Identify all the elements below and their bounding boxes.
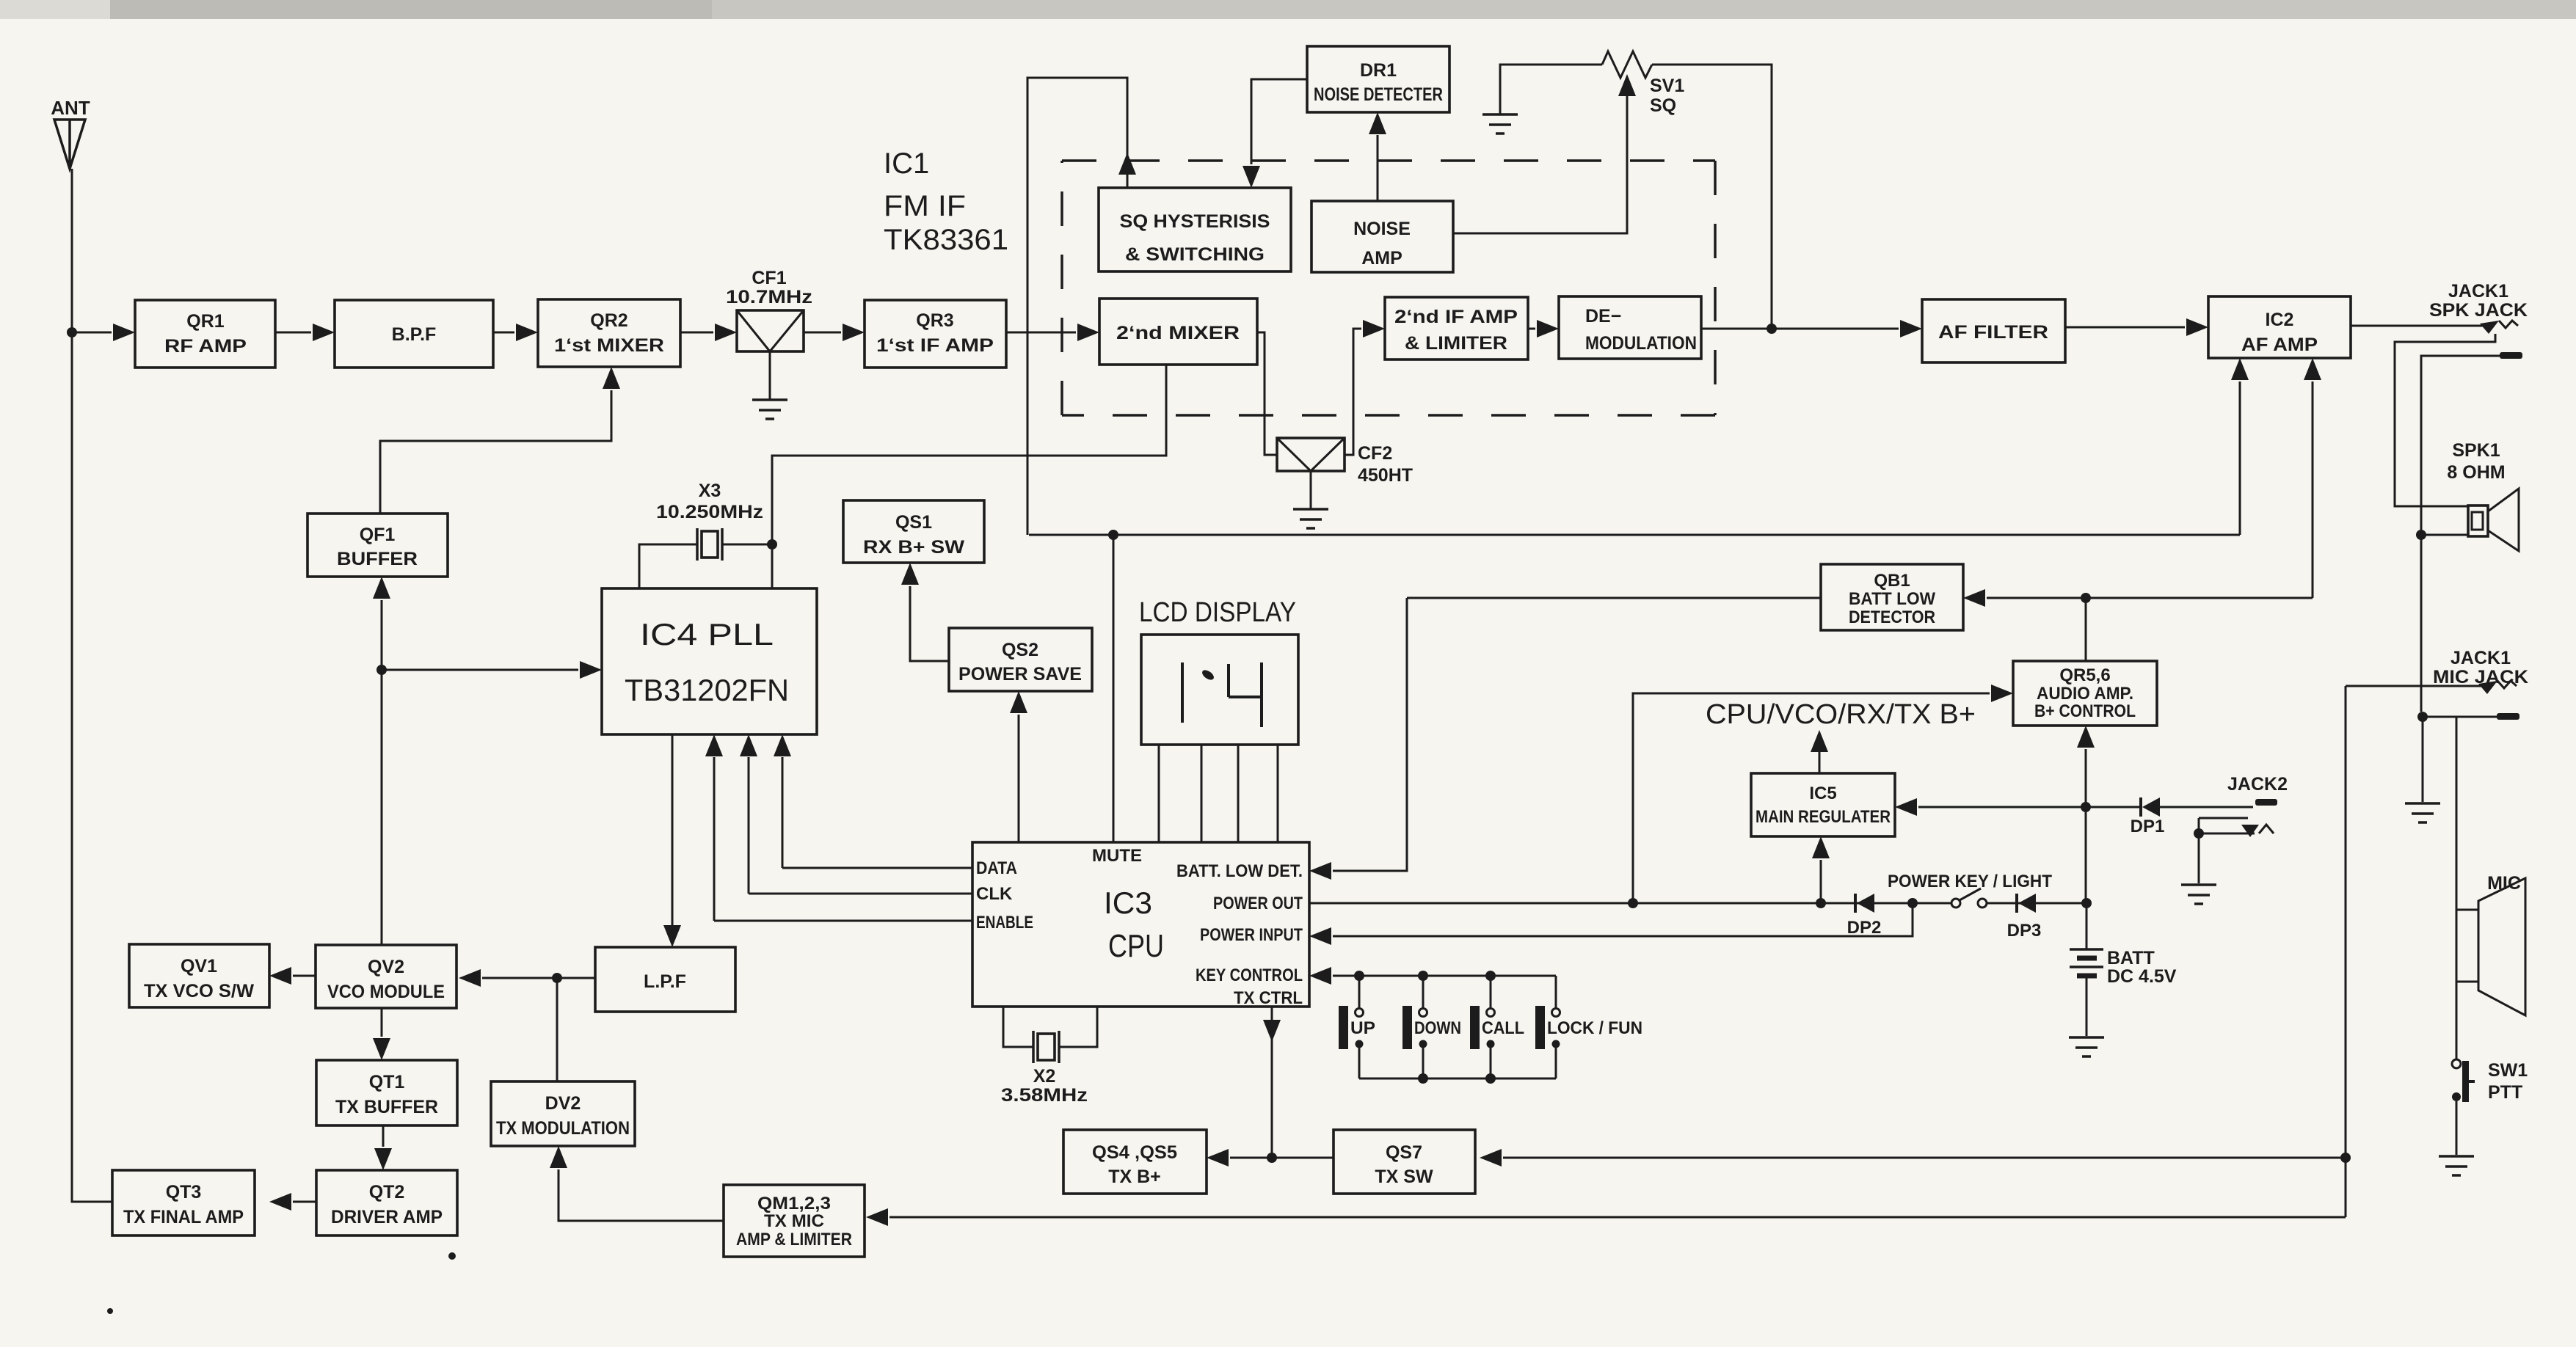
svg-text:QS4 ,QS5: QS4 ,QS5: [1092, 1142, 1177, 1163]
svg-text:POWER OUT: POWER OUT: [1213, 894, 1303, 913]
wire QB1 to IC3 BATT LOW DET: [1333, 598, 1407, 871]
diode DP1: [2139, 797, 2142, 817]
svg-text:DE−: DE−: [1585, 306, 1621, 326]
svg-text:QT1: QT1: [369, 1072, 405, 1092]
ground under CF2: [1293, 509, 1328, 528]
node demod output junction: [1767, 324, 1777, 334]
speaker SPK1 8 OHM: [2468, 505, 2488, 536]
svg-text:AMP & LIMITER: AMP & LIMITER: [736, 1230, 852, 1249]
svg-text:SQ: SQ: [1650, 95, 1676, 116]
wire B+ into QR5,6 top: [2085, 598, 2087, 661]
wire IC3 to QS2: [1018, 715, 1020, 842]
node antenna RX tap junction: [67, 327, 77, 337]
diode DP2: [1854, 894, 1857, 913]
node IC5 feed tap: [1816, 898, 1826, 908]
IC1 FM IF TK83361 dashed boundary: [1062, 161, 1715, 415]
wire KEY CONTROL bus: [1333, 975, 1556, 977]
node battery junction: [2081, 898, 2092, 908]
svg-text:QR2: QR2: [590, 310, 627, 331]
connector JACK1 MIC sleeve bar: [2497, 713, 2519, 720]
LCD digits 14: [1182, 662, 1262, 727]
wire IC4 to LPF: [672, 734, 674, 926]
svg-text:IC3: IC3: [1104, 886, 1152, 920]
filter CF2 450HT: [1277, 438, 1345, 471]
svg-text:SPK1: SPK1: [2452, 440, 2500, 461]
svg-text:MIC: MIC: [2487, 873, 2521, 894]
node mute junction: [1108, 530, 1118, 540]
block QV1 TX VCO S/W: [129, 944, 269, 1007]
filter CF1 10.7MHz: [737, 310, 804, 351]
svg-text:450HT: 450HT: [1358, 465, 1413, 486]
wire QT1 to QT2: [382, 1125, 385, 1147]
wire X3 right to IC4: [722, 544, 772, 588]
block AF FILTER: [1922, 299, 2065, 362]
svg-text:MAIN REGULATER: MAIN REGULATER: [1755, 807, 1891, 827]
arrowhead into IC2 bottom pin1: [2231, 358, 2249, 380]
arrowhead TX CTRL direction: [1263, 1020, 1281, 1042]
wire AF FILTER to IC2: [2065, 326, 2185, 329]
node IC5 output junction: [2081, 802, 2091, 812]
svg-text:2‘nd MIXER: 2‘nd MIXER: [1116, 323, 1240, 343]
wire MIC audio to QM amp: [889, 1216, 2346, 1219]
node POWER INPUT tap: [1907, 898, 1918, 908]
svg-text:2‘nd IF AMP: 2‘nd IF AMP: [1394, 307, 1518, 327]
wire MIC sleeve: [2423, 716, 2497, 718]
wire DR1 to SQ HYST: [1251, 79, 1307, 164]
wire NOISE AMP to SV1 wiper: [1453, 79, 1627, 233]
wire 2nd MIXER to CF2: [1257, 332, 1277, 455]
block LCD DISPLAY: [1141, 635, 1298, 745]
wire LCD pin4: [1277, 745, 1279, 842]
wire MIC to SW1: [2456, 982, 2458, 1059]
node VCO signal tap: [376, 665, 387, 675]
wire to IC3 POWER INPUT: [1333, 903, 1913, 936]
arrowhead into QR2 bottom: [603, 367, 620, 389]
svg-text:LCD DISPLAY: LCD DISPLAY: [1139, 597, 1296, 628]
svg-text:DR1: DR1: [1360, 60, 1397, 81]
block IC5 MAIN REGULATER: [1751, 773, 1895, 836]
wire junction to battery node: [2085, 807, 2087, 903]
block QS1 RX B+ SW: [843, 500, 984, 563]
svg-text:JACK1: JACK1: [2448, 281, 2508, 302]
arrowhead SQ HYST up out of IC1: [1118, 153, 1136, 175]
svg-text:8 OHM: 8 OHM: [2447, 462, 2505, 483]
wire IC3 TX CTRL down: [1271, 1007, 1273, 1158]
svg-text:POWER KEY / LIGHT: POWER KEY / LIGHT: [1888, 872, 2052, 891]
node MIC sleeve junction: [2417, 712, 2428, 722]
svg-text:X3: X3: [699, 481, 721, 501]
svg-text:IC5: IC5: [1809, 784, 1836, 803]
svg-text:1‘st IF AMP: 1‘st IF AMP: [876, 335, 994, 356]
svg-text:VCO MODULE: VCO MODULE: [327, 982, 445, 1002]
wire JACK2 to ground: [2198, 833, 2200, 883]
svg-text:QV1: QV1: [181, 956, 217, 977]
crystal X3 10.250MHz: [697, 528, 722, 561]
svg-text:NOISE DETECTER: NOISE DETECTER: [1314, 84, 1443, 105]
svg-text:CALL: CALL: [1482, 1018, 1524, 1038]
resistor SV1 SQ: [1602, 51, 1652, 78]
node X3-LO junction: [767, 539, 777, 550]
svg-text:& LIMITER: & LIMITER: [1405, 333, 1507, 354]
svg-text:TX SW: TX SW: [1375, 1167, 1433, 1187]
svg-text:FM IF: FM IF: [884, 190, 966, 222]
svg-text:TK83361: TK83361: [884, 224, 1008, 256]
connector JACK2 bar: [2255, 799, 2277, 806]
node LPF output junction: [552, 973, 562, 983]
svg-text:DETECTOR: DETECTOR: [1849, 607, 1935, 627]
svg-text:CF2: CF2: [1358, 443, 1392, 464]
svg-text:IC1: IC1: [884, 147, 929, 180]
svg-text:TX BUFFER: TX BUFFER: [335, 1097, 438, 1117]
block QM1,2,3 TX MIC AMP and LIMITER: [724, 1185, 865, 1257]
wire battery line to JACK2: [2086, 806, 2141, 808]
wire battery to ground: [2086, 978, 2088, 1036]
diode DP3: [2015, 894, 2018, 913]
svg-text:AF FILTER: AF FILTER: [1938, 322, 2048, 343]
svg-text:QT2: QT2: [369, 1182, 405, 1202]
block QR1 RF AMP: [135, 300, 275, 368]
svg-text:QS2: QS2: [1002, 640, 1038, 660]
wire X3 left to IC4: [639, 544, 697, 588]
svg-text:& SWITCHING: & SWITCHING: [1125, 244, 1265, 265]
wire NOISE AMP to DR1: [1377, 135, 1379, 201]
op-amp IC4 PLL TB31202FN: [602, 588, 817, 734]
wire mute-audio bus to IC2: [1029, 534, 2240, 536]
svg-text:BATT LOW: BATT LOW: [1849, 589, 1935, 609]
ground battery: [2069, 1037, 2104, 1056]
arrowhead into LPF top: [663, 925, 681, 947]
wire IC3 POWER OUT bus: [1309, 902, 1952, 905]
transistor QB1 BATT LOW DETECTOR: [1821, 564, 1963, 630]
battery BATT DC 4.5V: [2070, 949, 2103, 967]
svg-text:3.58MHz: 3.58MHz: [1001, 1085, 1088, 1106]
switch key UP: [1354, 971, 1364, 981]
svg-text:DP2: DP2: [1847, 918, 1882, 938]
wire speaker bottom to sleeve line: [2421, 534, 2468, 536]
arrowhead into QS2 bottom: [1010, 691, 1027, 713]
svg-text:CLK: CLK: [976, 884, 1013, 904]
svg-text:TX MIC: TX MIC: [764, 1211, 824, 1231]
svg-text:AMP: AMP: [1361, 248, 1402, 269]
wire QR1 to BPF: [275, 332, 311, 334]
arrowhead into QR1: [113, 324, 135, 341]
wire QB1 input from B+ line: [1987, 597, 2086, 599]
svg-text:PTT: PTT: [2488, 1082, 2522, 1103]
svg-text:DV2: DV2: [545, 1093, 581, 1114]
wire CF1 to ground: [769, 351, 771, 400]
wire QT2 to QT3: [293, 1201, 316, 1203]
wire QS7 to QS4: [1230, 1157, 1334, 1159]
block QT1 TX BUFFER: [316, 1060, 457, 1125]
wire MIC jack to microphone: [2456, 717, 2458, 910]
svg-text:CF1: CF1: [752, 268, 786, 288]
wire QV2 to QT1: [381, 1008, 383, 1037]
svg-text:SQ HYSTERISIS: SQ HYSTERISIS: [1120, 211, 1270, 232]
wire QS2 to QS1: [910, 586, 949, 661]
block QS2 POWER SAVE: [949, 628, 1092, 691]
connector JACK1 SPK JACK tip: [2480, 321, 2499, 334]
switch key DOWN: [1418, 971, 1428, 981]
block L.P.F: [595, 947, 735, 1012]
ground MIC sleeve: [2405, 803, 2440, 822]
svg-text:B+ CONTROL: B+ CONTROL: [2034, 701, 2136, 721]
switch SW1 PTT: [2452, 1059, 2461, 1068]
connector JACK1 MIC JACK tip: [2478, 681, 2497, 694]
wire B+ to IC2 pin2: [2086, 597, 2313, 599]
transistor QR5,6 AUDIO AMP B+ CONTROL: [2013, 661, 2157, 726]
block DR1 NOISE DETECTER: [1307, 46, 1449, 112]
node B+ line junction at QR5,6 top: [2081, 593, 2091, 603]
transistor QS7 TX SW: [1334, 1130, 1475, 1194]
switch key CALL: [1485, 971, 1496, 981]
svg-text:BATT. LOW DET.: BATT. LOW DET.: [1176, 861, 1303, 881]
arrowhead into SQ HYST top: [1242, 166, 1260, 188]
wire CLK to IC4: [748, 757, 750, 894]
svg-text:1‘st MIXER: 1‘st MIXER: [554, 335, 664, 356]
svg-text:X2: X2: [1033, 1066, 1056, 1087]
wire DP1 to JACK2: [2160, 806, 2253, 808]
block B.P.F: [335, 300, 493, 368]
svg-text:ANT: ANT: [51, 97, 90, 119]
svg-text:TX CTRL: TX CTRL: [1234, 988, 1303, 1008]
wire IC5 to B+ net label: [1819, 750, 1821, 773]
svg-text:DC 4.5V: DC 4.5V: [2107, 966, 2177, 987]
wire ground to SV1: [1500, 65, 1602, 114]
svg-text:BUFFER: BUFFER: [337, 549, 418, 569]
wire CF2 to 2nd IF AMP: [1345, 329, 1361, 455]
wire B+ to QB1: [1407, 597, 1821, 599]
wire MIC jack tip bus down: [2345, 686, 2347, 1217]
wire DATA IC3 to IC4: [782, 867, 972, 869]
svg-text:QB1: QB1: [1874, 571, 1910, 591]
block QR2 1st MIXER: [538, 299, 680, 367]
svg-text:QR3: QR3: [916, 310, 953, 331]
op-amp IC2 AF AMP: [2208, 296, 2351, 358]
wire battery: [2086, 903, 2088, 949]
svg-text:QR1: QR1: [186, 311, 225, 332]
ground under CF1: [752, 400, 787, 419]
svg-text:POWER INPUT: POWER INPUT: [1200, 925, 1303, 945]
transistor QS4,QS5 TX B+: [1063, 1130, 1207, 1194]
svg-text:QF1: QF1: [360, 525, 396, 545]
svg-text:L.P.F: L.P.F: [644, 971, 686, 992]
block QT3 TX FINAL AMP: [112, 1170, 255, 1235]
wire antenna line down to QT3: [72, 169, 112, 1202]
wire ANT to QR1: [72, 332, 112, 334]
svg-text:QS7: QS7: [1386, 1142, 1422, 1163]
svg-text:QS1: QS1: [895, 512, 932, 533]
svg-text:SPK JACK: SPK JACK: [2429, 300, 2528, 321]
wire CF1 to QR3: [804, 332, 841, 334]
wire MIC jack tip: [2346, 685, 2484, 687]
svg-text:10.250MHz: 10.250MHz: [656, 502, 763, 522]
wire MIC sleeve to ground: [2422, 717, 2424, 802]
svg-text:DRIVER AMP: DRIVER AMP: [331, 1207, 443, 1227]
svg-text:MODULATION: MODULATION: [1585, 333, 1697, 354]
arrowhead SV1 wiper: [1618, 74, 1636, 96]
svg-text:BATT: BATT: [2107, 948, 2155, 968]
svg-text:TX VCO S/W: TX VCO S/W: [144, 981, 254, 1001]
node TX CTRL junction: [1267, 1153, 1277, 1163]
svg-text:QM1,2,3: QM1,2,3: [757, 1194, 831, 1213]
block QR3 1st IF AMP: [865, 300, 1006, 368]
wire SW1 to ground: [2456, 1101, 2458, 1155]
wire QM to DV2: [559, 1169, 724, 1221]
wire ENABLE to IC4: [713, 757, 716, 921]
block QF1 BUFFER: [308, 514, 448, 577]
wire junction to LPF: [557, 977, 595, 979]
microphone MIC: [2456, 910, 2478, 982]
svg-text:JACK1: JACK1: [2451, 648, 2511, 668]
svg-text:IC4 PLL: IC4 PLL: [640, 617, 774, 651]
arrowhead into QF1 bottom: [373, 577, 390, 599]
wire VCO tap to IC4: [382, 669, 578, 671]
arrowhead into DV2 bottom: [550, 1146, 567, 1168]
wire DATA to IC4: [782, 757, 784, 868]
connector JACK1 SPK sleeve bar: [2500, 352, 2522, 359]
wire SQ HYST output to mute bus: [1027, 78, 1127, 535]
wire 2nd IF AMP to DE-MODULATION: [1528, 328, 1535, 330]
wire power to IC5 bottom: [1820, 860, 1822, 903]
op-amp IC3 CPU: [972, 842, 1309, 1007]
wire QV2 to QV1: [293, 975, 316, 977]
wire PLL LO to 2nd MIXER: [772, 365, 1166, 544]
wire SPK jack tip to speaker: [2395, 334, 2495, 506]
switch key LOCK / FUN: [1555, 976, 1557, 1008]
wire to IC5 right: [1918, 806, 2086, 808]
wire power to QR5,6 input: [1633, 693, 1990, 903]
antenna ANT symbol: [54, 120, 85, 169]
node key bus junction 2: [1485, 1073, 1496, 1084]
svg-text:DOWN: DOWN: [1414, 1018, 1461, 1038]
svg-text:POWER SAVE: POWER SAVE: [958, 664, 1082, 685]
svg-text:MUTE: MUTE: [1092, 846, 1142, 866]
node speaker-sleeve junction: [2416, 530, 2426, 540]
node QR5,6 feed tap: [1628, 898, 1638, 908]
ground JACK2: [2181, 885, 2216, 904]
svg-text:KEY CONTROL: KEY CONTROL: [1196, 965, 1303, 985]
block DV2 TX MODULATION: [491, 1081, 635, 1146]
svg-text:TX B+: TX B+: [1108, 1167, 1161, 1187]
connector JACK2 plug: [2199, 818, 2255, 833]
arrowhead into IC2 bottom pin2: [2304, 358, 2321, 380]
svg-text:TX MODULATION: TX MODULATION: [496, 1118, 630, 1139]
svg-text:CPU/VCO/RX/TX B+: CPU/VCO/RX/TX B+: [1706, 699, 1976, 730]
wire QR3 to 2nd MIXER: [1006, 332, 1076, 334]
switch POWER KEY: [1951, 899, 1960, 908]
svg-text:LOCK / FUN: LOCK / FUN: [1547, 1018, 1642, 1038]
wire key common bus: [1359, 1078, 1556, 1080]
svg-text:DP1: DP1: [2131, 817, 2165, 836]
svg-text:UP: UP: [1350, 1018, 1375, 1038]
wire SV1 to demod output: [1652, 65, 1772, 329]
svg-text:RF AMP: RF AMP: [164, 336, 247, 357]
wire MUTE to IC3: [1113, 535, 1115, 842]
wire DE-MODULATION to AF FILTER: [1701, 328, 1899, 330]
svg-text:NOISE: NOISE: [1353, 219, 1411, 239]
block QT2 DRIVER AMP: [316, 1170, 457, 1235]
svg-text:SW1: SW1: [2488, 1060, 2528, 1081]
block SQ HYSTERISIS and SWITCHING: [1099, 188, 1291, 271]
svg-text:TB31202FN: TB31202FN: [625, 673, 789, 707]
wire DV2 to LPF junction: [556, 978, 559, 1081]
ground under SW1 PTT: [2439, 1156, 2474, 1175]
svg-text:QR5,6: QR5,6: [2059, 665, 2110, 685]
svg-text:JACK2: JACK2: [2227, 774, 2288, 795]
svg-text:AF AMP: AF AMP: [2241, 335, 2318, 355]
wire IC2 to SPK jack: [2351, 325, 2486, 327]
wire SPK sleeve down: [2421, 356, 2500, 712]
svg-text:RX B+ SW: RX B+ SW: [863, 537, 964, 558]
wire BPF to QR2: [493, 332, 514, 334]
block 2nd IF AMP and LIMITER: [1385, 297, 1528, 359]
wire LCD pin3: [1237, 745, 1240, 842]
wire LCD pin2: [1201, 745, 1203, 842]
node key bus junction 1: [1418, 1073, 1428, 1084]
wire LCD pin1: [1158, 745, 1160, 842]
node JACK2 sleeve: [2194, 828, 2204, 839]
svg-text:QV2: QV2: [368, 957, 404, 977]
svg-text:TX FINAL AMP: TX FINAL AMP: [123, 1207, 244, 1227]
svg-text:ENABLE: ENABLE: [976, 913, 1033, 932]
block 2nd MIXER: [1099, 299, 1257, 365]
crystal X2 3.58MHz: [1003, 1007, 1033, 1047]
wire junction to QV2: [482, 977, 557, 979]
wire CF2 to ground: [1310, 471, 1312, 509]
svg-text:DP3: DP3: [2007, 921, 2042, 941]
block DE-MODULATION: [1559, 296, 1701, 359]
wire battery to QR5,6 bottom: [2085, 749, 2087, 807]
arrowhead into QS1 bottom: [901, 563, 919, 585]
block NOISE AMP: [1311, 201, 1453, 272]
node PTT line junction: [2340, 1153, 2351, 1163]
svg-text:10.7MHz: 10.7MHz: [726, 287, 812, 307]
svg-text:AUDIO AMP.: AUDIO AMP.: [2037, 684, 2133, 704]
ground at SV1: [1482, 114, 1518, 134]
arrowhead into DR1 bottom: [1369, 112, 1386, 134]
wire QF1 top to QR2 LO input: [380, 390, 611, 514]
block QV2 VCO MODULE: [316, 945, 456, 1008]
wire CLK IC3 to IC4: [749, 893, 972, 895]
wire QV2 to QF1: [381, 600, 383, 945]
svg-text:CPU: CPU: [1108, 928, 1164, 964]
svg-text:DATA: DATA: [976, 858, 1017, 878]
wire QR2 to CF1: [680, 332, 713, 334]
svg-text:QT3: QT3: [166, 1182, 202, 1202]
wire PTT to QS7: [1503, 1157, 2346, 1159]
svg-text:B.P.F: B.P.F: [392, 324, 437, 345]
svg-text:IC2: IC2: [2266, 310, 2294, 330]
wire ENABLE IC3 to IC4: [714, 920, 972, 922]
svg-text:SV1: SV1: [1650, 76, 1684, 96]
